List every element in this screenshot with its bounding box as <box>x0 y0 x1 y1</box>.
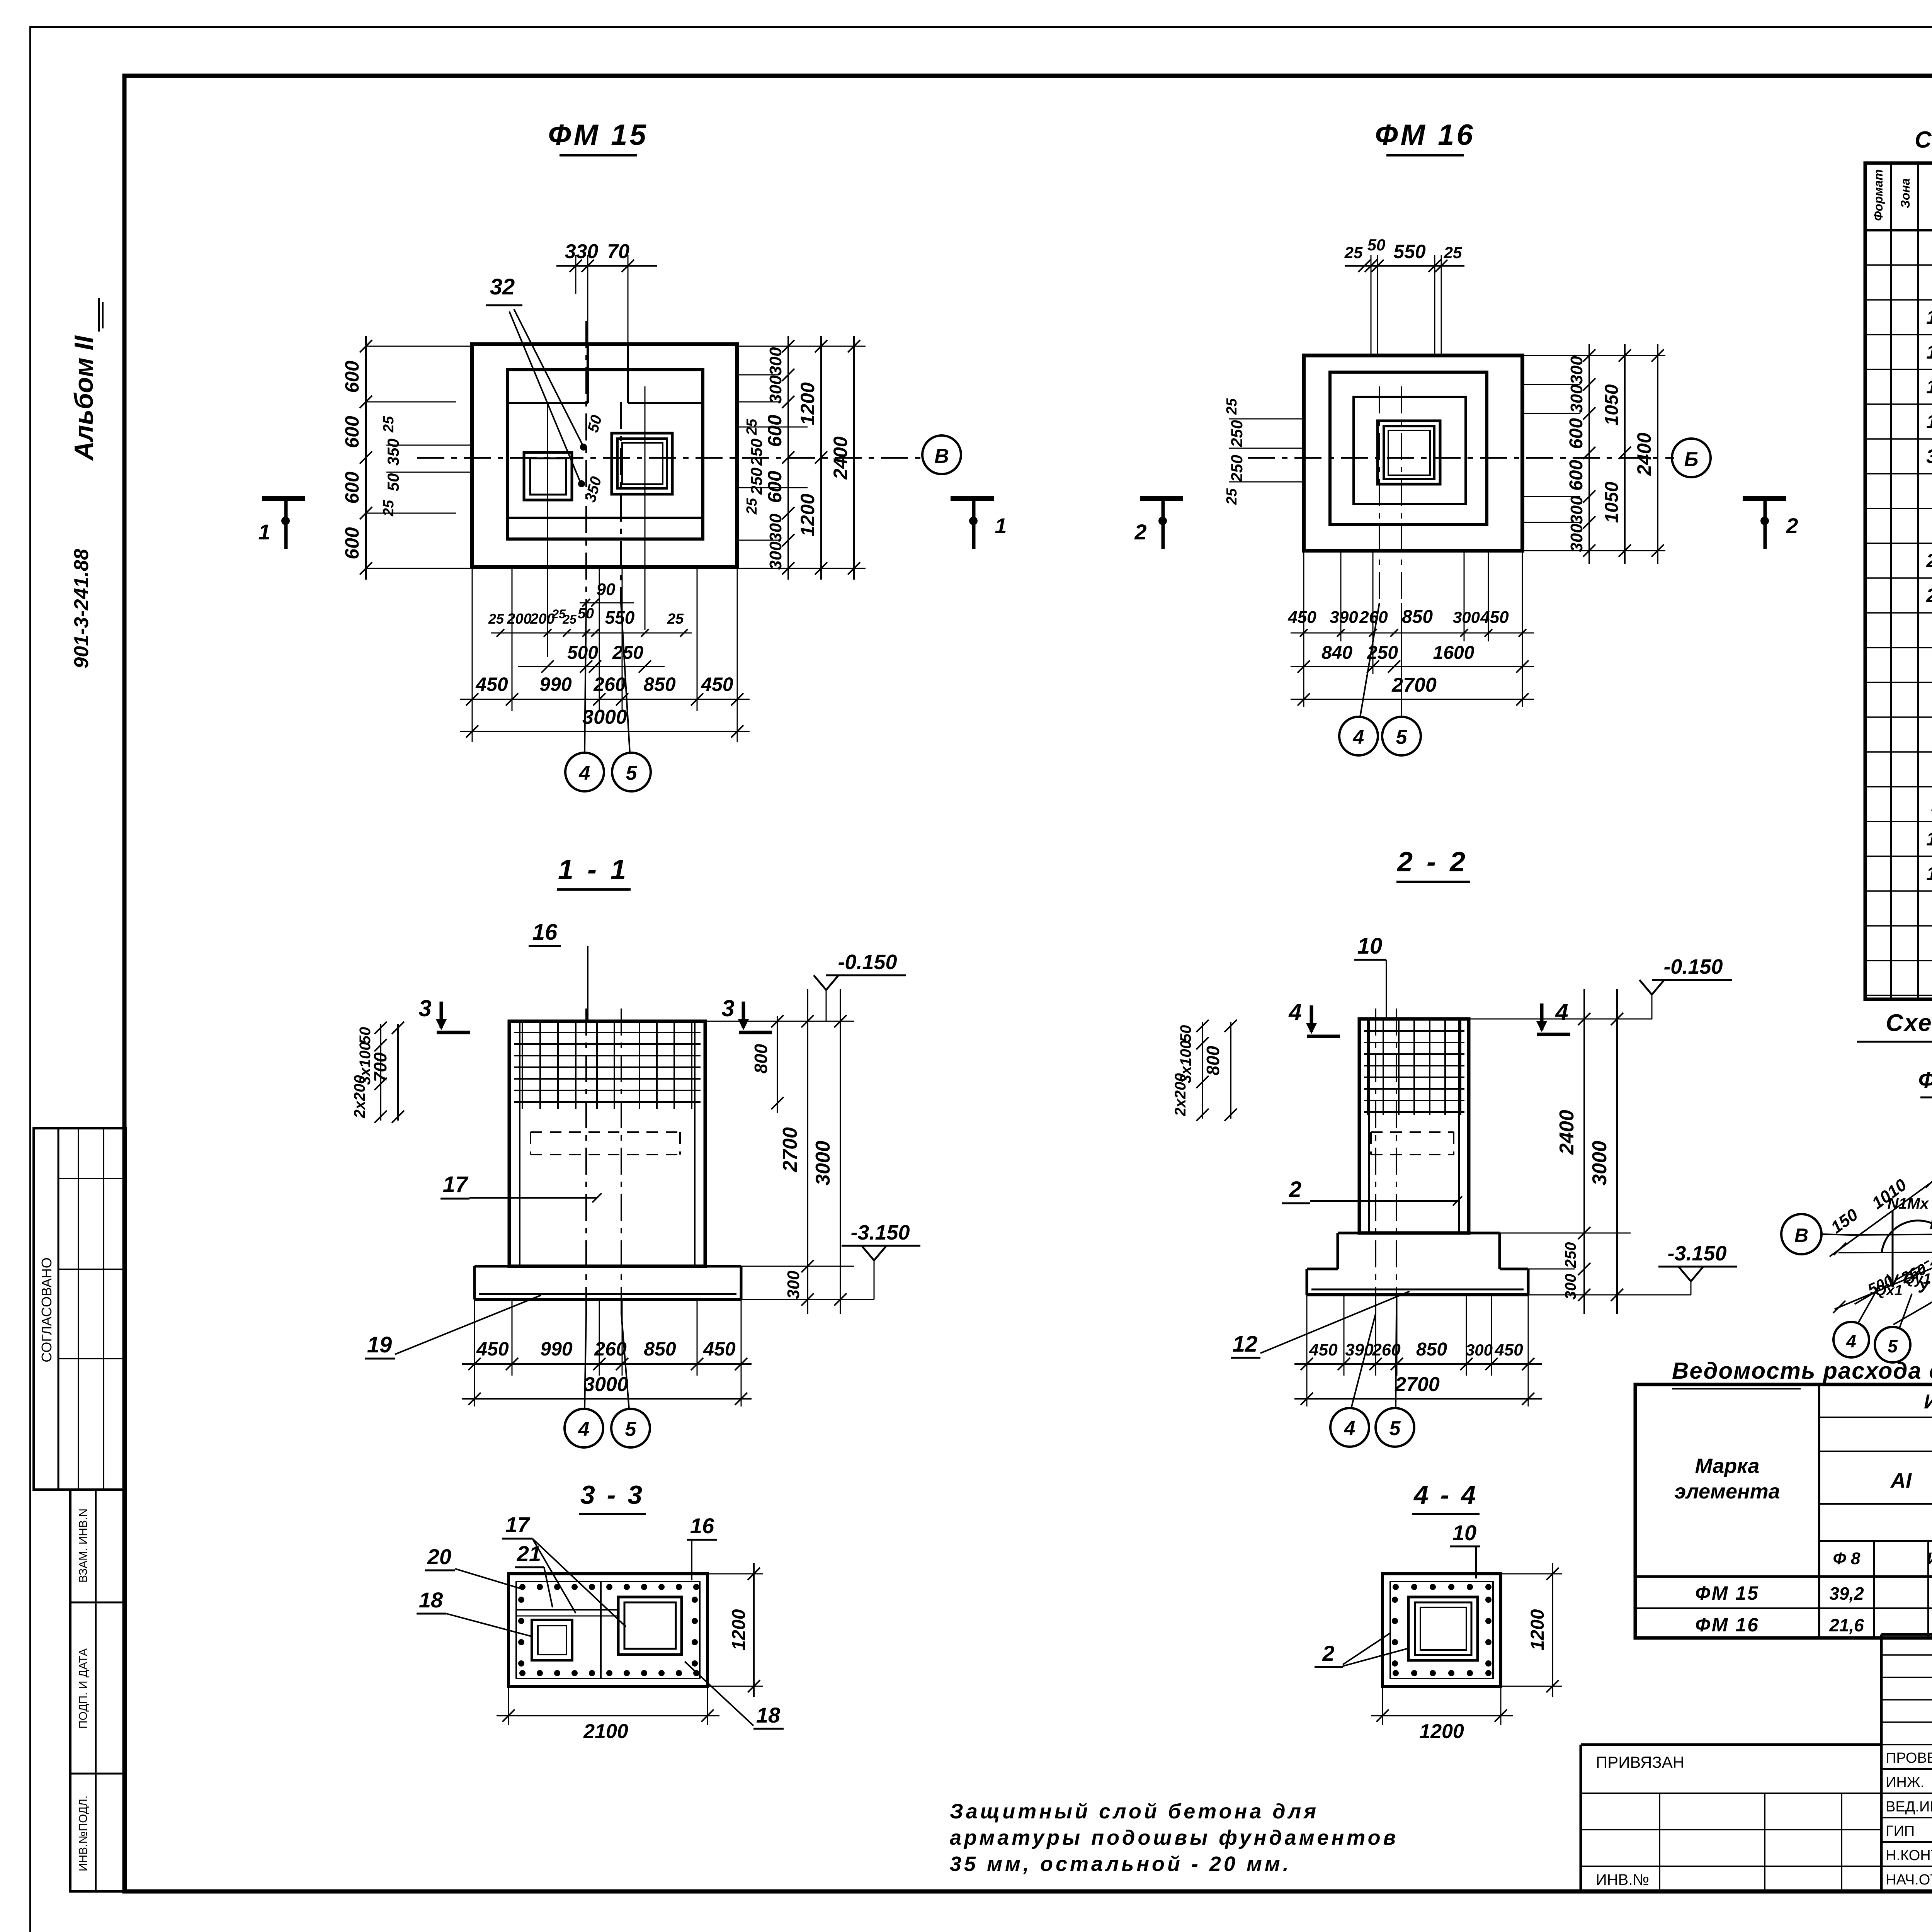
svg-text:ИНВ.№ПОДЛ.: ИНВ.№ПОДЛ. <box>77 1796 90 1871</box>
section 1-1 bottom chain <box>462 1338 752 1370</box>
svg-text:16: 16 <box>532 920 558 945</box>
svg-text:ФМ 15: ФМ 15 <box>548 119 648 151</box>
svg-text:1200: 1200 <box>797 382 818 425</box>
section 1-1 section mark 3 right <box>721 995 772 1032</box>
svg-text:990: 990 <box>539 673 572 695</box>
scheme FM15 dim 150 1010 <box>1827 1175 1910 1237</box>
svg-text:330: 330 <box>565 240 599 263</box>
section 3-3 inner contour <box>516 1582 700 1679</box>
svg-text:850: 850 <box>1416 1339 1447 1360</box>
svg-text:18: 18 <box>756 1703 781 1727</box>
svg-text:450: 450 <box>1287 608 1316 627</box>
svg-text:300: 300 <box>766 514 785 542</box>
plan FM16 total 2700 <box>1291 674 1534 706</box>
label 2 leader sec2 <box>1282 1177 1462 1206</box>
svg-text:ГИП: ГИП <box>1886 1823 1915 1839</box>
axis circle 5 sec2 <box>1376 1314 1414 1447</box>
section 1-1 rebar horizontals <box>514 1032 701 1102</box>
svg-text:600: 600 <box>341 361 363 393</box>
svg-text:260: 260 <box>593 673 626 695</box>
svg-text:2x200: 2x200 <box>1172 1073 1189 1116</box>
plan FM15 right dim chain 1200x2 <box>797 336 827 580</box>
svg-text:2: 2 <box>1134 520 1146 544</box>
svg-text:Альбом II: Альбом II <box>69 335 99 461</box>
section 2-2 right dim 3000 <box>1588 989 1623 1314</box>
section 2-2 section mark 4 right <box>1536 999 1570 1034</box>
svg-text:250: 250 <box>1228 420 1246 447</box>
svg-text:1200: 1200 <box>797 493 818 536</box>
label 16 leader 3-3 <box>687 1514 717 1580</box>
elevation mark -3.150 sec2 <box>1528 1242 1737 1295</box>
scheme FM15 moment arcs <box>1882 1208 1932 1263</box>
plan FM16 top dim extensions <box>1371 255 1441 355</box>
section 2-2 left small dims <box>1172 1020 1237 1121</box>
stamp soglasovano box <box>34 1128 126 1490</box>
svg-text:450: 450 <box>1494 1340 1523 1359</box>
plan FM15 bottom small dims row <box>488 605 692 637</box>
section 1-1 section mark 3 left <box>418 995 470 1032</box>
svg-text:3: 3 <box>721 995 734 1021</box>
svg-text:2x200: 2x200 <box>351 1075 368 1118</box>
plan FM15 section mark 1 left <box>258 498 305 549</box>
svg-text:Формат: Формат <box>1871 169 1885 221</box>
svg-text:ИНВ.№: ИНВ.№ <box>1596 1871 1649 1888</box>
section 3-3 bottom dim 2100 <box>497 1686 719 1743</box>
svg-text:300: 300 <box>1453 608 1480 626</box>
plan FM15 title <box>548 119 648 155</box>
elevation mark -3.150 sec1 <box>741 1221 920 1299</box>
svg-text:300: 300 <box>1567 524 1586 552</box>
plan FM16 glass outer <box>1378 421 1440 484</box>
svg-text:600: 600 <box>1566 460 1587 491</box>
svg-text:10: 10 <box>1452 1520 1476 1545</box>
svg-text:300: 300 <box>1567 384 1586 413</box>
plan FM15 bolt extension verticals <box>548 386 645 657</box>
svg-text:25: 25 <box>667 611 684 627</box>
plan FM15 outer contour <box>472 344 737 567</box>
svg-text:50: 50 <box>357 1027 374 1044</box>
plan FM16 section mark 2 left <box>1134 498 1183 549</box>
axis circle 4 sec2 <box>1330 1314 1376 1447</box>
section 1-1 column contour <box>509 1021 705 1266</box>
svg-text:39,2: 39,2 <box>1829 1583 1864 1604</box>
plan FM15 small rotated dims center <box>582 413 605 504</box>
svg-text:ФМ 16: ФМ 16 <box>1375 119 1475 151</box>
svg-text:2 - 2: 2 - 2 <box>1396 847 1468 878</box>
svg-text:1200: 1200 <box>1419 1720 1464 1743</box>
svg-text:20: 20 <box>1926 550 1932 571</box>
plan FM15 centerline axis 5 <box>620 402 622 603</box>
svg-text:Итого: Итого <box>1927 1549 1932 1568</box>
protective layer note <box>950 1800 1398 1876</box>
svg-text:2700: 2700 <box>1391 674 1437 696</box>
svg-text:ИНЖ.: ИНЖ. <box>1886 1774 1924 1791</box>
svg-text:50: 50 <box>384 473 402 492</box>
plan FM16 inner contour <box>1354 397 1466 504</box>
section 1-1 total 3000 <box>462 1373 752 1405</box>
svg-text:ПРИВЯЗАН: ПРИВЯЗАН <box>1596 1753 1684 1771</box>
section 2-2 column contour <box>1359 1019 1469 1233</box>
section 4-4 glass <box>1408 1597 1478 1660</box>
svg-text:850: 850 <box>643 673 676 695</box>
svg-text:1050: 1050 <box>1602 384 1622 425</box>
scheme FM15 small force labels <box>1875 1262 1932 1299</box>
plan FM16 title <box>1375 119 1475 155</box>
svg-text:300: 300 <box>766 375 785 404</box>
section 1-1 right dim 3000 <box>812 989 847 1314</box>
plan FM15 column notch <box>588 344 628 403</box>
svg-text:Спецификация монолитных фунд: Спецификация монолитных фундаментов ФМ 1… <box>1915 127 1932 153</box>
plan FM15 bolt pocket left <box>524 452 572 500</box>
svg-text:ФМ 15: ФМ 15 <box>1695 1582 1759 1604</box>
plan FM15 right small dims <box>737 418 808 515</box>
svg-text:элемента: элемента <box>1674 1480 1780 1503</box>
specification title <box>1915 127 1932 153</box>
svg-text:450: 450 <box>476 1338 509 1360</box>
svg-text:25: 25 <box>1224 488 1240 505</box>
label 10 leader sec2 <box>1354 934 1386 1019</box>
svg-text:16: 16 <box>1926 306 1932 328</box>
svg-text:18: 18 <box>1926 376 1932 398</box>
vedomost grid <box>1635 1384 1932 1638</box>
axis circle 4 sec1 <box>565 1314 603 1447</box>
section 1-1 left small dims <box>351 1022 404 1123</box>
svg-text:500: 500 <box>567 643 598 663</box>
svg-text:4: 4 <box>1555 999 1568 1025</box>
svg-text:32: 32 <box>490 274 515 299</box>
vedomost row FM16 <box>1695 1614 1932 1636</box>
svg-text:390: 390 <box>1345 1340 1374 1359</box>
svg-text:25: 25 <box>1224 398 1240 415</box>
svg-text:18: 18 <box>419 1588 443 1612</box>
section 4-4 right dim 1200 <box>1501 1563 1562 1697</box>
svg-text:У: У <box>1918 1277 1930 1296</box>
svg-text:1200: 1200 <box>1527 1609 1548 1650</box>
svg-text:450: 450 <box>1309 1340 1338 1359</box>
svg-text:Защитный слой бетона для: Защитный слой бетона для <box>950 1800 1319 1823</box>
label 17 leader <box>440 1172 602 1202</box>
svg-text:Поз: Поз <box>1930 181 1932 209</box>
svg-text:600: 600 <box>1566 418 1587 449</box>
scheme FM15 plate lines <box>1830 1121 1932 1325</box>
elevation mark -0.150 sec2 <box>1469 955 1732 1019</box>
svg-text:4: 4 <box>1353 726 1364 748</box>
svg-text:19: 19 <box>1926 411 1932 432</box>
svg-text:19: 19 <box>367 1332 392 1357</box>
svg-text:1200: 1200 <box>729 1609 749 1650</box>
scheme FM15 axis X <box>1851 1220 1932 1241</box>
svg-text:Ведомость расхода стали на: Ведомость расхода стали на один элемент,… <box>1672 1358 1932 1384</box>
section 1-1 footing <box>474 1266 741 1299</box>
svg-text:25: 25 <box>1344 243 1363 262</box>
axis circle V <box>922 435 961 474</box>
svg-text:600: 600 <box>341 416 363 448</box>
svg-text:Марка: Марка <box>1695 1454 1760 1478</box>
specification header <box>1871 169 1932 225</box>
svg-text:1: 1 <box>995 514 1007 538</box>
svg-text:3: 3 <box>418 995 431 1021</box>
scheme FM15 axis circles 4 5 <box>1833 1277 1930 1362</box>
plan FM16 glass mid <box>1384 426 1434 479</box>
axis circle 5 plan FM15 <box>612 603 651 791</box>
plan FM15 centerline axis B <box>417 457 924 459</box>
svg-text:ВЕД.ИНЖ: ВЕД.ИНЖ <box>1886 1799 1932 1815</box>
svg-text:200: 200 <box>507 611 531 627</box>
section 2-2 total 2700 <box>1294 1373 1542 1405</box>
label 17 leader 3-3 <box>502 1512 626 1627</box>
svg-text:2: 2 <box>1786 514 1798 538</box>
section 4-4 inner contour <box>1390 1582 1493 1679</box>
svg-text:21: 21 <box>1926 585 1932 606</box>
svg-text:300: 300 <box>766 347 785 376</box>
plan FM16 section mark 2 right <box>1743 498 1798 549</box>
plan FM15 left small dims <box>381 416 472 517</box>
svg-text:2400: 2400 <box>1633 432 1655 476</box>
svg-text:4: 4 <box>1846 1331 1856 1351</box>
section 1-1 centerline 5 <box>621 1009 622 1314</box>
svg-text:10: 10 <box>1357 934 1383 959</box>
svg-text:450: 450 <box>703 1338 736 1360</box>
svg-text:17: 17 <box>443 1172 469 1197</box>
svg-text:25: 25 <box>1444 243 1462 262</box>
plan FM16 dims 840 250 1600 <box>1291 643 1534 673</box>
margin text project code <box>70 549 93 668</box>
section 3-3 right dim 1200 <box>707 1563 763 1697</box>
svg-text:2: 2 <box>1322 1641 1334 1665</box>
svg-text:2: 2 <box>1289 1177 1301 1202</box>
svg-text:-3.150: -3.150 <box>1667 1242 1726 1265</box>
svg-text:90: 90 <box>597 580 616 599</box>
label 18 leader left <box>417 1588 532 1636</box>
svg-text:200: 200 <box>530 611 554 627</box>
svg-text:-0.150: -0.150 <box>1663 955 1723 978</box>
svg-text:700: 700 <box>370 1052 390 1082</box>
svg-text:2100: 2100 <box>583 1720 628 1743</box>
section 2-2 footing slab <box>1307 1269 1528 1295</box>
section 4-4 rebar dots <box>1392 1584 1492 1676</box>
svg-text:3000: 3000 <box>1588 1141 1611 1185</box>
svg-text:450: 450 <box>475 673 508 695</box>
section 2-2 centerline 5 <box>1396 1009 1397 1314</box>
svg-text:840: 840 <box>1321 643 1352 663</box>
svg-text:250: 250 <box>1562 1242 1579 1269</box>
svg-text:800: 800 <box>1203 1046 1223 1075</box>
svg-text:800: 800 <box>751 1044 771 1073</box>
plan FM16 bottom small dims <box>1287 607 1534 637</box>
plan FM15 right dim chain 300-600 <box>737 336 866 580</box>
svg-text:250: 250 <box>1228 455 1246 482</box>
svg-text:300: 300 <box>766 541 785 570</box>
svg-text:600: 600 <box>764 415 786 447</box>
plan FM16 centerline axis 4 <box>1379 386 1380 603</box>
vedomost header texts <box>1674 1388 1932 1534</box>
margin text album <box>69 298 103 461</box>
svg-text:20: 20 <box>427 1544 451 1569</box>
vedomost heading <box>1672 1358 1932 1389</box>
section 1-1 left dim 800 <box>751 1015 784 1113</box>
svg-text:300: 300 <box>1562 1274 1579 1300</box>
svg-text:2400: 2400 <box>1556 1110 1578 1155</box>
label 18 leader right <box>685 1662 784 1729</box>
section 3-3 rebar dots <box>518 1584 699 1676</box>
svg-text:12: 12 <box>1926 863 1932 884</box>
svg-text:-0.150: -0.150 <box>838 951 897 974</box>
plan FM16 centerline axis B <box>1248 457 1674 459</box>
plan FM16 bottom extensions <box>1304 551 1522 707</box>
svg-text:5: 5 <box>625 1418 637 1440</box>
label 12 leader <box>1231 1291 1410 1358</box>
svg-text:21: 21 <box>517 1541 541 1566</box>
plan FM15 top dim 330 70 <box>556 240 657 272</box>
label 2 leader 4-4 <box>1315 1633 1410 1667</box>
svg-text:4: 4 <box>1288 999 1301 1025</box>
svg-text:390: 390 <box>1330 608 1358 627</box>
plan FM15 dim 90 <box>580 580 634 607</box>
plan FM16 outer contour <box>1304 355 1522 551</box>
svg-text:25: 25 <box>488 611 504 627</box>
section 2-2 rebar verticals <box>1368 1019 1461 1115</box>
svg-text:ФМ 15: ФМ 15 <box>1918 1068 1932 1093</box>
section 2-2 bottom chain <box>1294 1339 1542 1370</box>
svg-text:СОГЛАСОВАНО: СОГЛАСОВАНО <box>39 1257 54 1362</box>
plan FM15 bolt pocket right <box>612 433 672 494</box>
svg-text:ПРОВЕР.: ПРОВЕР. <box>1886 1750 1932 1766</box>
svg-text:ФМ 16: ФМ 16 <box>1695 1614 1759 1636</box>
svg-text:1 - 1: 1 - 1 <box>558 854 629 885</box>
section 2-2 right dim 2400 250 300 <box>1469 989 1631 1314</box>
svg-text:3000: 3000 <box>812 1141 834 1185</box>
svg-text:ПОДП. И ДАТА: ПОДП. И ДАТА <box>77 1648 90 1729</box>
section 2-2 step tier <box>1338 1233 1500 1269</box>
svg-text:600: 600 <box>341 471 363 504</box>
svg-text:Зона: Зона <box>1898 178 1912 208</box>
svg-text:300: 300 <box>1567 356 1586 384</box>
svg-text:25: 25 <box>381 500 397 517</box>
svg-text:Qх1: Qх1 <box>1875 1282 1903 1299</box>
svg-text:4: 4 <box>1344 1417 1355 1440</box>
plan FM15 total chain 3000 <box>460 706 750 738</box>
svg-text:300: 300 <box>1466 1341 1493 1359</box>
svg-text:В: В <box>934 445 949 468</box>
svg-text:250: 250 <box>747 468 765 495</box>
plan FM15 bottom extensions <box>472 567 737 742</box>
svg-text:4 - 4: 4 - 4 <box>1413 1480 1478 1510</box>
svg-text:901-3-241.88: 901-3-241.88 <box>70 549 93 668</box>
section 3-3 title <box>579 1480 646 1514</box>
svg-text:250: 250 <box>612 643 643 663</box>
title block staff rows <box>1886 1748 1932 1888</box>
svg-text:1050: 1050 <box>1602 481 1622 523</box>
specification rows <box>1926 236 1932 954</box>
svg-text:990: 990 <box>540 1338 573 1360</box>
svg-text:3000: 3000 <box>583 1373 628 1396</box>
svg-text:350: 350 <box>384 439 402 466</box>
section 3-3 inner bars <box>516 1582 617 1679</box>
svg-text:450: 450 <box>1480 608 1509 627</box>
label 20 leader <box>425 1544 522 1589</box>
svg-text:70: 70 <box>607 240 629 263</box>
scheme FM15 dims 500 260 250 <box>1865 1250 1932 1298</box>
svg-text:4: 4 <box>578 1418 590 1440</box>
svg-text:850: 850 <box>644 1338 676 1360</box>
svg-text:Изделия арматурные: Изделия арматурные <box>1924 1391 1932 1413</box>
scheme FM15 force N1 <box>1887 1195 1932 1287</box>
plan FM16 centerline axis 5 <box>1401 386 1402 603</box>
label 10 leader 4-4 <box>1450 1520 1480 1578</box>
section 4-4 title <box>1412 1480 1480 1514</box>
svg-text:В: В <box>1794 1225 1808 1246</box>
svg-text:ВЗАМ. ИНВ.N: ВЗАМ. ИНВ.N <box>77 1509 90 1583</box>
svg-text:16: 16 <box>690 1514 714 1538</box>
svg-text:арматуры подошвы фундаментов: арматуры подошвы фундаментов <box>950 1826 1398 1849</box>
svg-text:550: 550 <box>605 607 635 628</box>
plan FM16 right dim chain 1050x2 <box>1602 344 1631 564</box>
plan FM15 dims 500 250 <box>518 643 665 673</box>
svg-text:3 - 3: 3 - 3 <box>580 1480 645 1510</box>
section 2-2 rebar horizontals <box>1364 1031 1464 1112</box>
svg-text:4: 4 <box>579 762 590 784</box>
svg-text:Б: Б <box>1684 448 1699 471</box>
specification grid <box>1865 163 1932 999</box>
section 3-3 outer contour <box>509 1574 707 1686</box>
svg-text:2400: 2400 <box>830 436 851 480</box>
section 2-2 anchor dashed box <box>1371 1132 1454 1155</box>
svg-text:25: 25 <box>381 416 397 433</box>
plan FM15 pedestal contour <box>507 370 703 539</box>
svg-text:25: 25 <box>562 612 577 626</box>
svg-text:12: 12 <box>1233 1332 1258 1357</box>
plan FM16 top dims 25 50 550 25 <box>1344 236 1464 272</box>
vedomost dia row <box>1833 1549 1932 1568</box>
svg-text:Ф 8: Ф 8 <box>1833 1549 1861 1568</box>
svg-text:21,6: 21,6 <box>1829 1615 1864 1635</box>
svg-text:АI: АI <box>1890 1469 1912 1492</box>
scheme FM15 axis circle V <box>1781 1214 1851 1254</box>
svg-text:2700: 2700 <box>1395 1373 1440 1396</box>
svg-text:НАЧ.ОТД: НАЧ.ОТД <box>1886 1872 1932 1888</box>
plan FM16 right dim chain 2400 <box>1633 344 1664 564</box>
svg-text:260: 260 <box>594 1338 627 1360</box>
plan FM15 pedestal inner edges <box>507 403 703 518</box>
plan FM15 main bottom chain <box>460 673 750 706</box>
plan FM15 left dim chain 600x4 <box>341 336 472 580</box>
section 1-1 bottom extensions <box>474 1299 741 1406</box>
svg-text:250: 250 <box>747 439 765 466</box>
plan FM15 top dim extensions <box>576 255 628 344</box>
stamp vzam inv box <box>70 1490 126 1891</box>
section 3-3 right pocket <box>618 1597 682 1655</box>
load schemes heading <box>1857 1010 1932 1042</box>
section 2-2 bottom extensions <box>1307 1295 1528 1406</box>
axis circle 5 plan FM16 <box>1382 603 1421 755</box>
svg-text:3000: 3000 <box>582 706 627 728</box>
svg-text:1600: 1600 <box>1433 643 1475 663</box>
svg-text:450: 450 <box>701 673 733 695</box>
plan FM16 step contour <box>1330 372 1487 524</box>
title block left box <box>1581 1745 1881 1891</box>
svg-text:5: 5 <box>1389 1417 1401 1440</box>
svg-text:50: 50 <box>1177 1025 1194 1043</box>
svg-text:Н.КОНТР: Н.КОНТР <box>1886 1847 1932 1864</box>
svg-text:600: 600 <box>341 527 363 560</box>
vedomost row FM15 <box>1695 1582 1932 1604</box>
svg-text:10: 10 <box>1926 828 1932 850</box>
axis circle 4 plan FM16 <box>1339 603 1379 755</box>
svg-text:5: 5 <box>1396 726 1408 748</box>
plan FM15 section mark 1 right <box>951 498 1007 549</box>
svg-text:N1Mх: N1Mх <box>1888 1195 1929 1212</box>
svg-text:550: 550 <box>1393 241 1426 262</box>
